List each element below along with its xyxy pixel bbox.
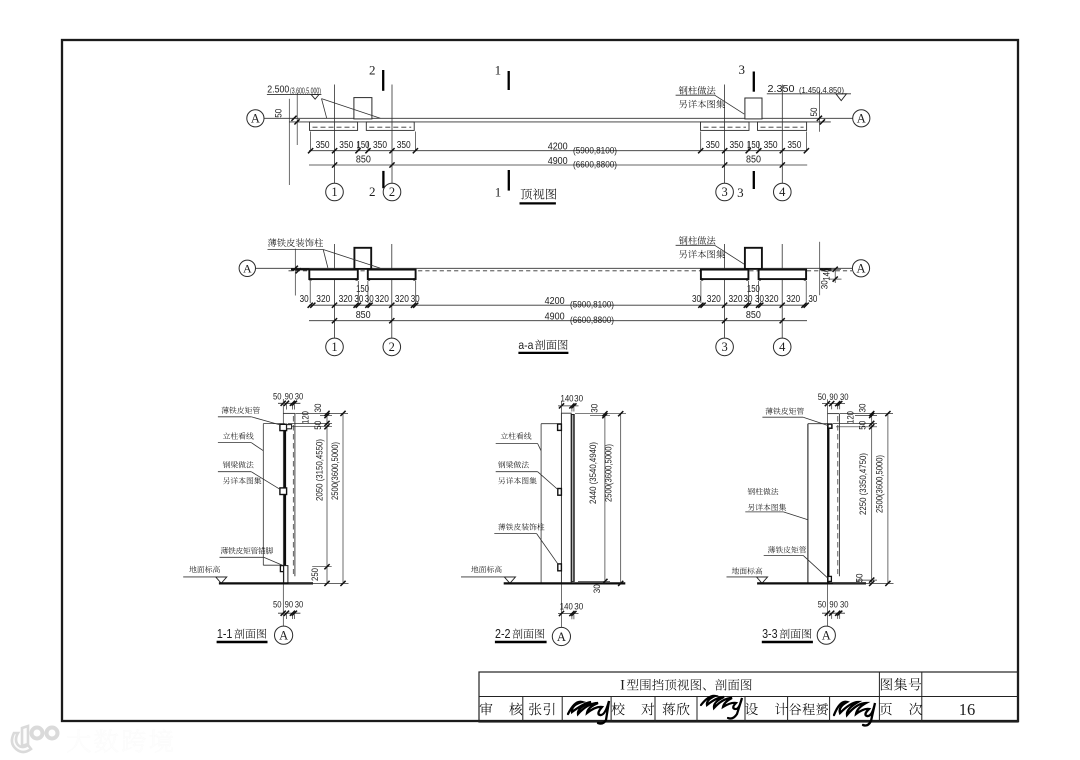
svg-text:A: A bbox=[251, 112, 260, 126]
drawing sheet border frame bbox=[62, 40, 1018, 721]
grid bubble 4 bbox=[774, 183, 792, 201]
svg-text:A: A bbox=[279, 629, 288, 643]
svg-text:90: 90 bbox=[285, 600, 294, 610]
foundation pad (dashed hidden edge) bbox=[366, 122, 414, 130]
leader to column bbox=[322, 99, 381, 119]
svg-text:3-3: 3-3 bbox=[762, 627, 778, 641]
svg-text:2250 (3350,4750): 2250 (3350,4750) bbox=[858, 453, 868, 515]
svg-text:(5900,8100): (5900,8100) bbox=[573, 145, 617, 155]
label: thin iron decorative column (2-2) bbox=[498, 523, 505, 530]
extension line at right fence end bbox=[818, 91, 820, 132]
vertical dims right of 2-2 bbox=[575, 413, 626, 415]
label: column sight line bbox=[223, 432, 230, 439]
svg-text:30: 30 bbox=[808, 294, 817, 305]
svg-text:350: 350 bbox=[339, 140, 353, 151]
svg-text:2050 (3150,4550): 2050 (3150,4550) bbox=[314, 439, 324, 501]
svg-text:(6600,8800): (6600,8800) bbox=[570, 315, 614, 325]
grid line A / fence top edge bbox=[264, 117, 853, 119]
svg-text:250: 250 bbox=[310, 568, 320, 581]
square tube post (thick) bbox=[284, 426, 286, 584]
extension line for 50 offset bbox=[296, 93, 298, 145]
svg-text:350: 350 bbox=[730, 140, 744, 151]
svg-text:16: 16 bbox=[959, 700, 976, 719]
svg-text:90: 90 bbox=[829, 599, 838, 609]
rail end stub (left) bbox=[291, 268, 310, 270]
svg-text:30: 30 bbox=[354, 294, 363, 305]
svg-text:50: 50 bbox=[273, 392, 282, 402]
cell: reviewed by bbox=[480, 702, 493, 715]
ground line (2-2) bbox=[504, 582, 626, 584]
svg-text:350: 350 bbox=[316, 140, 330, 151]
title: top view bbox=[521, 189, 532, 200]
svg-text:350: 350 bbox=[397, 140, 411, 151]
grid line 2 (a-a) bbox=[391, 244, 393, 338]
grid line 4 bbox=[781, 85, 783, 184]
steel column (a-a) left bbox=[354, 248, 371, 269]
top view dimension line 1 bbox=[309, 150, 807, 152]
svg-text:30: 30 bbox=[313, 404, 323, 413]
a-a dimension line 1 bbox=[309, 304, 807, 306]
steel column (plan) left bbox=[354, 98, 372, 119]
label: thin iron square tube bbox=[222, 407, 229, 414]
steel edge beam (section) bbox=[701, 270, 749, 280]
vertical dims right of 3-3 bbox=[840, 413, 893, 415]
beam outline (2-2) bbox=[541, 423, 561, 425]
svg-text:4900: 4900 bbox=[545, 312, 566, 323]
svg-text:320: 320 bbox=[395, 294, 409, 305]
svg-text:A: A bbox=[243, 261, 252, 275]
signature of checker bbox=[701, 696, 742, 719]
svg-text:30: 30 bbox=[840, 392, 849, 402]
fence panel (3-3) bbox=[828, 413, 840, 415]
svg-text:3: 3 bbox=[721, 185, 727, 199]
label: thin iron tube anchor foot bbox=[221, 547, 228, 554]
label: thin iron square tube (3-3 bottom) bbox=[768, 546, 775, 553]
svg-text:A: A bbox=[557, 630, 566, 644]
grid bubble A right (a-a) bbox=[852, 260, 869, 277]
svg-text:150: 150 bbox=[357, 140, 370, 151]
svg-text:140: 140 bbox=[561, 394, 574, 404]
svg-text:2.350: 2.350 bbox=[768, 84, 796, 95]
label: thin iron square tube (3-3 top) bbox=[766, 407, 773, 414]
svg-text:50: 50 bbox=[818, 599, 827, 609]
svg-text:30: 30 bbox=[365, 294, 374, 305]
svg-text:30: 30 bbox=[574, 394, 583, 404]
svg-text:I: I bbox=[620, 677, 625, 693]
grid bubble A (2-2) bbox=[552, 627, 570, 645]
svg-text:30: 30 bbox=[858, 404, 868, 413]
svg-text:4: 4 bbox=[779, 185, 786, 199]
grid bubble 2 bbox=[383, 183, 401, 201]
steel column (plan) right bbox=[745, 98, 762, 119]
extension line through post edge to bubble A (2-2) bbox=[560, 401, 562, 627]
kick bracket and kick plate bbox=[280, 566, 283, 572]
svg-text:(6600,8800): (6600,8800) bbox=[573, 160, 617, 170]
svg-text:320: 320 bbox=[339, 294, 353, 305]
svg-text:30: 30 bbox=[590, 404, 600, 413]
extension line right end (a-a) bbox=[819, 242, 821, 295]
leader to fence line bbox=[322, 99, 327, 119]
clamp brackets (2-2) bbox=[558, 424, 562, 430]
svg-text:30: 30 bbox=[692, 294, 701, 305]
svg-text:4200: 4200 bbox=[545, 296, 566, 307]
svg-text:(5900,8100): (5900,8100) bbox=[570, 299, 614, 309]
svg-text:320: 320 bbox=[729, 294, 743, 305]
rail dashed face line bbox=[289, 270, 853, 272]
label: steel beam detail see atlas bbox=[223, 461, 230, 468]
label: steel column detail (3-3) bbox=[748, 488, 755, 495]
svg-text:350: 350 bbox=[706, 140, 720, 151]
cell: atlas no. bbox=[881, 678, 892, 690]
extension line at left fence end bbox=[288, 99, 290, 185]
grid bubble A left (a-a) bbox=[239, 260, 255, 276]
cell: page no. bbox=[879, 703, 891, 715]
label: ground level (3-3) bbox=[732, 567, 739, 574]
svg-text:30: 30 bbox=[300, 294, 309, 305]
label: column sight line (2-2) bbox=[501, 432, 508, 439]
steel column outline (3-3) bbox=[808, 423, 828, 425]
grid bubble A (1-1) bbox=[275, 626, 293, 644]
label: steel beam detail (2-2) bbox=[498, 461, 505, 468]
grid bubble 1 bbox=[326, 183, 344, 201]
extension line through post face down to bubble A bbox=[282, 399, 284, 626]
grid bubble 4 (a-a) bbox=[773, 338, 791, 356]
svg-text:3: 3 bbox=[737, 185, 744, 200]
fence outer face line bbox=[289, 121, 831, 123]
svg-text:30: 30 bbox=[840, 599, 849, 609]
svg-text:1: 1 bbox=[331, 185, 337, 199]
cell: designed by bbox=[745, 703, 758, 715]
steel column (a-a) right bbox=[745, 248, 762, 269]
rail end stub (right) bbox=[820, 268, 831, 270]
svg-text:30: 30 bbox=[295, 392, 304, 402]
svg-text:50: 50 bbox=[274, 109, 285, 118]
foundation pad (dashed hidden edge) bbox=[701, 122, 750, 130]
svg-text:2.500: 2.500 bbox=[267, 85, 289, 96]
grid bubble A (3-3) bbox=[817, 626, 835, 644]
extension line left end (a-a) bbox=[294, 249, 296, 296]
grid line 1 bbox=[334, 85, 336, 184]
svg-text:30: 30 bbox=[755, 294, 764, 305]
fence panel (1-1) bbox=[284, 412, 295, 414]
svg-text:30: 30 bbox=[820, 280, 830, 289]
svg-text:850: 850 bbox=[356, 154, 371, 165]
top clamp bracket (3-3) bbox=[828, 424, 832, 428]
svg-text:90: 90 bbox=[285, 392, 294, 402]
svg-text:350: 350 bbox=[764, 140, 778, 151]
svg-text:4900: 4900 bbox=[548, 156, 569, 167]
label: steel column detail, see atlas bbox=[679, 86, 688, 94]
svg-text:350: 350 bbox=[373, 140, 387, 151]
svg-text:140: 140 bbox=[560, 602, 573, 612]
svg-text:50: 50 bbox=[854, 574, 864, 583]
grid line 3 bbox=[724, 85, 726, 184]
svg-text:2: 2 bbox=[389, 340, 395, 354]
signature of reviewer bbox=[568, 701, 609, 724]
svg-text:30: 30 bbox=[295, 600, 304, 610]
svg-text:120: 120 bbox=[845, 411, 855, 424]
foundation pad (dashed hidden edge) bbox=[758, 122, 807, 130]
svg-text:50: 50 bbox=[858, 421, 868, 430]
svg-text:2: 2 bbox=[389, 185, 395, 199]
svg-text:4: 4 bbox=[779, 340, 786, 354]
title block inner lines bbox=[479, 696, 1018, 698]
svg-text:(3.600,5.000): (3.600,5.000) bbox=[290, 86, 321, 95]
grid line 4 (a-a) bbox=[781, 244, 783, 338]
svg-text:a-a: a-a bbox=[518, 338, 533, 352]
svg-text:50: 50 bbox=[809, 108, 820, 117]
cell: checked by bbox=[612, 703, 625, 716]
ground line (3-3) bbox=[757, 582, 866, 584]
grid bubble A right bbox=[853, 110, 870, 127]
svg-text:120: 120 bbox=[301, 411, 311, 424]
steel edge beam (section) bbox=[309, 270, 358, 280]
svg-text:2-2: 2-2 bbox=[495, 627, 511, 641]
svg-text:320: 320 bbox=[375, 294, 389, 305]
svg-text:1: 1 bbox=[495, 63, 502, 78]
grid bubble 3 (a-a) bbox=[716, 338, 734, 356]
square tube post thick (3-3) bbox=[827, 425, 829, 584]
grid bubble 3 bbox=[716, 183, 734, 201]
svg-text:140: 140 bbox=[822, 268, 832, 281]
grid bubble 1 (a-a) bbox=[326, 338, 344, 356]
svg-text:850: 850 bbox=[746, 310, 761, 321]
svg-text:2500(3600,5000): 2500(3600,5000) bbox=[874, 455, 884, 513]
svg-text:320: 320 bbox=[707, 294, 721, 305]
svg-text:30: 30 bbox=[592, 584, 602, 593]
steel edge beam (section) bbox=[368, 270, 416, 280]
svg-text:90: 90 bbox=[829, 392, 838, 402]
label: ground level (2-2) bbox=[471, 566, 478, 573]
svg-text:2: 2 bbox=[369, 184, 376, 199]
svg-text:A: A bbox=[856, 262, 865, 276]
svg-text:50: 50 bbox=[818, 392, 827, 402]
svg-text:320: 320 bbox=[765, 294, 779, 305]
steel edge beam (section) bbox=[759, 270, 807, 280]
top clamp bracket bbox=[280, 424, 287, 430]
svg-text:2500(3600,5000): 2500(3600,5000) bbox=[603, 444, 613, 502]
svg-text:2500(3600,5000): 2500(3600,5000) bbox=[330, 442, 340, 500]
svg-text:320: 320 bbox=[786, 294, 800, 305]
grid bubble A left bbox=[247, 110, 264, 127]
middle clamp bracket bbox=[280, 488, 287, 495]
vertical dims right of 1-1 bbox=[296, 412, 349, 414]
watermark logo bottom-left bbox=[12, 726, 58, 752]
cut fence panel (dark) bbox=[571, 414, 574, 581]
svg-text:50: 50 bbox=[273, 600, 282, 610]
label: ground level bbox=[189, 566, 196, 573]
grid line 3 (a-a) bbox=[724, 244, 726, 338]
svg-text:2: 2 bbox=[369, 63, 376, 78]
grid bubble 2 (a-a) bbox=[383, 338, 401, 356]
svg-text:2440 (3540,4940): 2440 (3540,4940) bbox=[588, 442, 598, 504]
top view dimension line 2 bbox=[309, 164, 807, 166]
grid line 1 (a-a) bbox=[334, 244, 336, 338]
svg-text:3: 3 bbox=[738, 62, 745, 77]
label: steel column detail (a-a) bbox=[679, 236, 688, 244]
svg-text:A: A bbox=[857, 112, 866, 126]
vertical dim 140/30 at right end bbox=[829, 268, 841, 270]
svg-text:1-1: 1-1 bbox=[217, 627, 233, 641]
svg-text:3: 3 bbox=[721, 340, 727, 354]
svg-text:320: 320 bbox=[316, 294, 330, 305]
bottom bracket (3-3) bbox=[828, 576, 832, 581]
svg-text:850: 850 bbox=[746, 154, 761, 165]
svg-text:A: A bbox=[822, 629, 831, 643]
svg-text:1: 1 bbox=[331, 340, 337, 354]
svg-text:350: 350 bbox=[787, 140, 801, 151]
svg-text:1: 1 bbox=[495, 184, 502, 199]
extension stubs to dim line (top view) bbox=[310, 132, 312, 151]
label: thin iron decorative column bbox=[268, 238, 277, 246]
svg-text:50: 50 bbox=[313, 421, 323, 430]
svg-text:4200: 4200 bbox=[548, 142, 569, 153]
rail top line bbox=[256, 267, 853, 269]
a-a dimension line 2 bbox=[309, 320, 807, 322]
foundation pad (dashed hidden edge) bbox=[310, 122, 358, 130]
svg-text:150: 150 bbox=[747, 140, 760, 151]
grid line 2 bbox=[391, 85, 393, 184]
post projected outline (2-2) bbox=[561, 413, 571, 583]
svg-text:30: 30 bbox=[574, 602, 583, 612]
extension line through post face to bubble A (3-3) bbox=[827, 399, 829, 626]
svg-text:850: 850 bbox=[356, 310, 371, 321]
ground line (1-1) bbox=[219, 582, 313, 584]
column sight line bbox=[263, 423, 285, 425]
signature of designer bbox=[834, 702, 875, 726]
